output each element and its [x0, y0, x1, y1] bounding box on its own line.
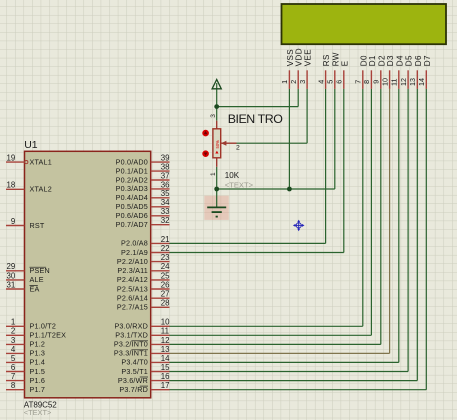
svg-text:RW: RW [331, 52, 340, 66]
svg-text:P2.7/A15: P2.7/A15 [117, 303, 148, 312]
svg-text:P3.0/RXD: P3.0/RXD [114, 322, 148, 331]
wire ground horizontal run [217, 188, 335, 190]
svg-text:VEE: VEE [304, 49, 313, 67]
wire VDD vertical to LCD pin2 [297, 89, 299, 107]
svg-text:P1.0/T2: P1.0/T2 [30, 322, 57, 331]
wire D3 to P3.3 [170, 352, 390, 354]
svg-text:D2: D2 [377, 55, 386, 66]
svg-text:3: 3 [11, 336, 16, 345]
svg-text:22: 22 [161, 244, 170, 253]
wire E to P2.1 [170, 252, 344, 254]
wire D6 vertical [416, 89, 418, 381]
blue origin marker [293, 220, 305, 232]
potentiometer increment button [202, 130, 209, 137]
svg-text:1: 1 [11, 318, 15, 327]
svg-text:P0.7/AD7: P0.7/AD7 [116, 220, 148, 229]
wire pot pin3 upper [216, 107, 218, 121]
svg-text:27: 27 [161, 290, 170, 299]
power symbol VCC arrow [212, 80, 221, 89]
wire D2 to P3.2 [170, 343, 381, 345]
svg-text:7: 7 [11, 372, 15, 381]
U1 left pin stubs [6, 162, 25, 390]
U1 right pin stubs [151, 162, 170, 390]
wire D0 vertical [362, 89, 364, 326]
svg-text:13: 13 [408, 78, 417, 86]
ground symbol [207, 207, 226, 216]
wire D5 to P3.5 [170, 371, 409, 373]
potentiometer decrement button [202, 150, 209, 157]
svg-text:P2.2/A10: P2.2/A10 [117, 257, 148, 266]
svg-text:4: 4 [316, 80, 325, 84]
svg-text:34: 34 [161, 198, 170, 207]
LCD display LCD1 (LM016L screen) [282, 4, 447, 44]
svg-text:33: 33 [161, 207, 170, 216]
U1 right pin names [114, 157, 148, 394]
svg-text:10K: 10K [225, 171, 240, 180]
svg-text:P3.4/T0: P3.4/T0 [121, 358, 148, 367]
junction node pot/ground [214, 187, 219, 192]
svg-text:D3: D3 [386, 55, 395, 66]
svg-text:1: 1 [280, 80, 289, 84]
wire D7 to P3.7 [170, 389, 427, 391]
svg-text:P1.7: P1.7 [30, 385, 46, 394]
svg-text:P1.1/T2EX: P1.1/T2EX [30, 331, 67, 340]
svg-text:P0.1/AD1: P0.1/AD1 [116, 166, 148, 175]
LCD pin numbers 1-14 (rotated) [280, 78, 426, 86]
overline INT0 [131, 340, 148, 342]
svg-text:21: 21 [161, 235, 170, 244]
wire D2 vertical [380, 89, 382, 345]
svg-text:RST: RST [30, 221, 45, 230]
junction node VSS/ground [287, 187, 292, 192]
U1 left pin numbers [7, 154, 16, 391]
wire wiper to VEE horizontal [237, 142, 308, 144]
wire VEE vertical LCD pin3 [306, 89, 308, 143]
svg-text:9: 9 [11, 217, 16, 226]
svg-text:29: 29 [7, 262, 16, 271]
svg-text:12: 12 [399, 78, 408, 86]
potentiometer percent indicator [215, 140, 220, 154]
svg-text:3: 3 [298, 80, 307, 84]
potentiometer wiper arrow [221, 141, 226, 146]
svg-text:5: 5 [326, 80, 335, 84]
svg-text:BIEN TRO: BIEN TRO [228, 112, 284, 126]
svg-text:D7: D7 [423, 55, 432, 66]
svg-text:P3.1/TXD: P3.1/TXD [115, 331, 148, 340]
svg-text:8: 8 [362, 80, 371, 84]
XTAL1 pin circle [25, 161, 28, 164]
LCD pin name labels (rotated) [286, 48, 432, 66]
wire to ground symbol [216, 189, 218, 207]
svg-text:2: 2 [289, 80, 298, 84]
svg-text:37: 37 [161, 171, 170, 180]
svg-text:P0.3/AD3: P0.3/AD3 [116, 184, 148, 193]
svg-text:P1.5: P1.5 [30, 367, 46, 376]
svg-text:32: 32 [161, 216, 170, 225]
svg-text:14: 14 [161, 354, 170, 363]
svg-text:P0.2/AD2: P0.2/AD2 [116, 175, 148, 184]
overline INT1 [131, 349, 148, 351]
svg-text:P2.4/A12: P2.4/A12 [117, 275, 148, 284]
svg-text:12: 12 [161, 336, 170, 345]
svg-text:D5: D5 [405, 55, 414, 66]
svg-text:18: 18 [7, 181, 16, 190]
svg-text:26: 26 [161, 280, 170, 289]
svg-text:D4: D4 [395, 55, 404, 66]
potentiometer RV1 pin stubs [217, 121, 237, 167]
wire D4 to P3.4 [170, 361, 399, 363]
svg-text:3: 3 [210, 114, 217, 118]
svg-text:E: E [340, 60, 349, 66]
svg-text:XTAL2: XTAL2 [30, 185, 52, 194]
svg-text:<TEXT>: <TEXT> [24, 408, 52, 417]
wire D6 to P3.6 [170, 380, 418, 382]
svg-text:35: 35 [161, 189, 170, 198]
wire E vertical [343, 89, 345, 253]
op chip U1 AT89C52 body [25, 151, 151, 397]
junction node VDD/pot [214, 104, 219, 109]
svg-text:11: 11 [161, 327, 169, 336]
wire D3 vertical [389, 89, 391, 354]
overline EA [30, 284, 38, 286]
svg-text:39: 39 [161, 154, 170, 163]
svg-text:10: 10 [161, 318, 170, 327]
svg-text:RS: RS [322, 54, 331, 66]
wire D1 to P3.1 [170, 334, 372, 336]
wire VCC arrow to node [216, 83, 218, 107]
svg-text:P1.6: P1.6 [30, 376, 46, 385]
wire D0 to P3.0 [170, 325, 363, 327]
svg-text:19: 19 [7, 154, 16, 163]
svg-text:VSS: VSS [286, 49, 295, 67]
svg-text:P2.0/A8: P2.0/A8 [121, 239, 148, 248]
svg-text:P1.4: P1.4 [30, 358, 46, 367]
wire VDD horizontal [217, 106, 299, 108]
overline RD [140, 385, 148, 387]
svg-text:P2.6/A14: P2.6/A14 [117, 294, 148, 303]
svg-text:P0.5/AD5: P0.5/AD5 [116, 202, 148, 211]
wire D5 vertical [407, 89, 409, 372]
svg-text:P0.0/AD0: P0.0/AD0 [116, 157, 148, 166]
svg-text:P2.5/A13: P2.5/A13 [117, 284, 148, 293]
svg-text:P1.3: P1.3 [30, 349, 46, 358]
wire D7 vertical [425, 89, 427, 390]
svg-text:P1.2: P1.2 [30, 340, 46, 349]
svg-text:<TEXT>: <TEXT> [225, 181, 254, 190]
svg-text:36: 36 [161, 180, 170, 189]
svg-text:ALE: ALE [30, 275, 44, 284]
overline PSEN [30, 266, 47, 268]
svg-text:11: 11 [390, 79, 399, 86]
svg-text:VDD: VDD [295, 48, 304, 66]
ground highlight box [204, 196, 229, 220]
svg-text:13: 13 [161, 345, 170, 354]
wire RW vertical to ground net [334, 89, 336, 189]
svg-text:P2.3/A11: P2.3/A11 [117, 266, 148, 275]
svg-text:14: 14 [417, 78, 426, 86]
svg-text:23: 23 [161, 253, 170, 262]
svg-text:P3.5/T1: P3.5/T1 [121, 367, 148, 376]
wire VSS vertical LCD pin1 [288, 89, 290, 189]
svg-text:P2.1/A9: P2.1/A9 [121, 248, 148, 257]
svg-text:10: 10 [380, 78, 389, 86]
svg-text:50%: 50% [215, 140, 220, 149]
svg-text:6: 6 [11, 363, 16, 372]
svg-text:8: 8 [11, 381, 16, 390]
U1 right pin numbers [161, 154, 170, 391]
wire D4 vertical [398, 89, 400, 363]
svg-text:U1: U1 [24, 139, 38, 151]
svg-text:D1: D1 [368, 55, 377, 66]
wire D1 vertical [370, 89, 372, 335]
LCD pin stubs [289, 70, 426, 89]
wire RS to P2.0 [170, 242, 326, 244]
wire pot pin1 lower [216, 167, 218, 189]
svg-text:6: 6 [335, 80, 344, 84]
svg-text:5: 5 [11, 354, 16, 363]
svg-text:30: 30 [7, 271, 16, 280]
svg-text:D6: D6 [414, 55, 423, 66]
svg-text:9: 9 [372, 80, 381, 84]
overline WR [140, 376, 148, 378]
svg-text:2: 2 [11, 327, 15, 336]
U1 left pin names [30, 157, 67, 394]
svg-text:XTAL1: XTAL1 [30, 157, 52, 166]
svg-text:38: 38 [161, 163, 170, 172]
svg-text:28: 28 [161, 299, 170, 308]
svg-text:31: 31 [7, 280, 16, 289]
svg-text:25: 25 [161, 271, 170, 280]
potentiometer RV1 body [213, 129, 221, 158]
wire RS vertical [325, 89, 327, 244]
svg-text:2: 2 [236, 144, 240, 151]
svg-text:16: 16 [161, 372, 170, 381]
svg-text:24: 24 [161, 262, 170, 271]
svg-text:15: 15 [161, 363, 170, 372]
svg-text:4: 4 [11, 345, 16, 354]
svg-text:1: 1 [210, 172, 217, 176]
svg-text:P0.6/AD6: P0.6/AD6 [116, 211, 148, 220]
svg-text:17: 17 [161, 381, 170, 390]
svg-text:P0.4/AD4: P0.4/AD4 [116, 193, 148, 202]
